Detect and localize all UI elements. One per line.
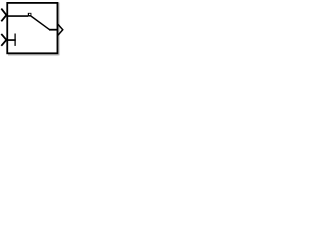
shadow right [58,3,60,56]
switch pivot knob center [29,14,31,15]
wire input 1 stub [7,15,28,17]
output port arrow [58,24,63,35]
input port 1 arrow [1,9,6,22]
shadow bottom [8,54,58,56]
switch arm diagonal [31,16,50,30]
wire output stub [49,29,57,31]
input 2 terminal bar [14,34,16,46]
background [0,0,66,58]
block body U1 [7,3,57,53]
switch block schematic [0,0,66,58]
wire input 2 stub [7,39,16,41]
input port 2 arrow [1,34,6,46]
switch pivot knob [28,13,32,17]
